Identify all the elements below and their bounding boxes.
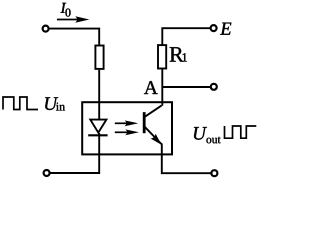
- terminal bottom-left: [44, 170, 50, 176]
- label E: [220, 23, 231, 35]
- label A: [144, 81, 158, 94]
- label R1: [170, 47, 187, 61]
- wire resistor to LED: [98, 70, 100, 120]
- terminal output top-right: [211, 84, 217, 90]
- output square wave: [225, 126, 257, 138]
- resistor R1: [158, 45, 166, 68]
- phototransistor emitter: [144, 126, 162, 144]
- wire input to resistor: [49, 29, 99, 45]
- terminal bottom-right: [211, 170, 217, 176]
- LED diode triangle: [90, 120, 106, 133]
- input square wave: [3, 97, 38, 110]
- phototransistor collector: [144, 106, 161, 118]
- wire E supply to R1: [162, 28, 210, 44]
- label Uin: [45, 97, 65, 110]
- resistor left (LED series): [95, 46, 103, 69]
- LED cathode bar: [88, 134, 107, 136]
- terminal input top-left: [43, 26, 49, 32]
- wire emitter to bottom-right terminal: [162, 144, 211, 174]
- phototransistor base bar: [143, 112, 145, 133]
- label I0: [61, 3, 71, 17]
- light arrow 1: [115, 120, 139, 126]
- wire LED to bottom-left terminal: [50, 133, 99, 173]
- label Uout: [194, 127, 221, 143]
- emitter arrowhead: [151, 134, 162, 145]
- node A wire to output terminal: [162, 86, 210, 88]
- light arrow 2: [115, 129, 139, 135]
- terminal E top-right: [211, 25, 217, 31]
- current arrow I0: [57, 16, 89, 23]
- wire R1 to collector (node A vertical): [161, 69, 163, 105]
- optocoupler box: [82, 102, 172, 154]
